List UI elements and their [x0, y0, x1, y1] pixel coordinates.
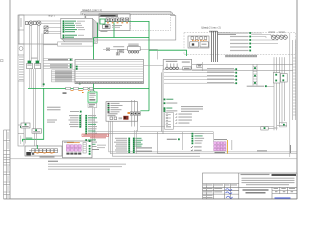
к ШУВ labels right	[181, 106, 203, 107]
wire pair left drop	[29, 69, 31, 89]
XT1 din rail hatch	[75, 81, 144, 83]
connector stack	[90, 91, 94, 95]
module A1 orange marks	[107, 22, 128, 23]
bus terminal block 2	[281, 74, 288, 83]
PSU terminal column	[83, 143, 86, 154]
PLC lower elements	[110, 117, 113, 120]
cabinet Шкаф 2 din rail	[225, 55, 257, 57]
svg-text:Жгут 1: Жгут 1	[48, 16, 56, 18]
bus end block	[280, 123, 287, 127]
PLC icon column	[108, 103, 123, 116]
frame bottom border	[4, 198, 298, 200]
IO row labels right	[136, 138, 143, 147]
alarm row highlight	[82, 134, 109, 136]
bundle feed wires	[218, 32, 237, 34]
rotated cable label	[231, 140, 233, 150]
long bottom wire	[10, 158, 297, 160]
module A2 orange marks	[192, 39, 207, 41]
left stamp column table	[4, 130, 11, 199]
label Ф-0000	[215, 152, 226, 153]
PSU orange feed wire	[67, 142, 80, 144]
AK Indycom label	[167, 139, 177, 140]
long bus wire E	[95, 133, 213, 135]
module A1 header	[99, 14, 118, 17]
green loop wire G2	[94, 23, 150, 93]
svg-text:Шкаф 2 (лист 2): Шкаф 2 (лист 2)	[201, 25, 221, 29]
controller module A1	[99, 14, 130, 31]
wire through filter cluster	[103, 48, 158, 50]
rotated doc code	[290, 145, 292, 153]
interface module A3 green frame	[88, 92, 97, 102]
label AK-0000 (лист 1)	[40, 156, 55, 157]
terminal list strip (left narrow column)	[18, 15, 24, 146]
lower junction wire	[262, 127, 274, 129]
motor feed rows	[164, 68, 237, 84]
svg-text:Шкаф 1 (лист 1): Шкаф 1 (лист 1)	[82, 8, 102, 12]
fold mark left margin	[1, 60, 3, 62]
tiny pin numbers	[63, 92, 67, 94]
device row list left	[44, 59, 78, 82]
lit cells	[274, 188, 296, 192]
filter РФ	[197, 64, 203, 67]
power supply box	[63, 141, 93, 158]
motor list rows left	[69, 115, 82, 128]
wire from device ПС1	[25, 128, 27, 144]
long bus wire C	[140, 126, 274, 128]
terminal row in AK box	[32, 149, 58, 153]
cable tag labels	[47, 120, 57, 121]
module A1 connector row	[106, 18, 129, 22]
switch S2	[44, 31, 48, 34]
riser wires to power supply	[92, 108, 94, 142]
signal rows ПТ	[164, 99, 178, 112]
wire to junction box	[144, 65, 164, 67]
right terminal strip XT5	[293, 40, 296, 120]
CK-201 pins	[167, 64, 177, 68]
side riser wire	[289, 33, 291, 157]
module A1 green port	[100, 19, 105, 24]
cabinet Шкаф 2 dashed enclosure	[184, 33, 296, 55]
XT1 terminal markers	[76, 66, 78, 68]
device ПС1	[21, 123, 30, 128]
right cable bus	[274, 57, 285, 130]
pin header box	[128, 47, 141, 51]
orange links between terminals	[71, 89, 90, 91]
pushbutton unit SB1	[28, 61, 32, 64]
strip indicator	[20, 126, 22, 128]
cable header row	[70, 111, 79, 112]
signal list sheet strip below	[58, 42, 94, 46]
wires rows to sensors	[251, 33, 278, 44]
strip rotated label	[20, 18, 22, 27]
wires to signal list	[33, 21, 62, 33]
notes paragraph	[48, 161, 58, 162]
pushbutton unit SB2	[36, 61, 40, 64]
terminal rail block XT1	[75, 60, 144, 84]
PSU relay feet	[66, 153, 81, 155]
sensor pair M1	[271, 35, 279, 39]
dark breaker	[26, 152, 31, 155]
lamp HL1	[26, 21, 34, 25]
mid terminal strip	[253, 64, 257, 86]
orange patch wire	[227, 140, 229, 154]
strip wire number list	[19, 57, 24, 80]
lamp HL2	[34, 21, 42, 25]
signal list block	[61, 18, 93, 38]
IO far left labels	[97, 144, 106, 147]
power box AK-0000	[25, 146, 62, 156]
filter cluster labels	[113, 46, 124, 47]
wire pair from HL1	[29, 26, 31, 62]
aux contact box	[116, 53, 119, 55]
bus terminal block 1	[273, 73, 280, 84]
sensor pair M2	[279, 35, 287, 39]
IO row labels left	[114, 138, 127, 153]
filter РФ2	[106, 48, 109, 51]
frame right border	[296, 0, 298, 199]
junction box CK-201	[163, 60, 192, 70]
frame left border	[9, 0, 11, 199]
device ПС2	[32, 129, 42, 133]
orange tick	[82, 91, 84, 94]
relay KD dark red	[123, 116, 128, 120]
network switch port grid	[214, 142, 226, 151]
green wire tag	[26, 138, 33, 139]
wire pair from HL2	[37, 26, 39, 62]
module A2 connector row	[191, 37, 207, 40]
rail green marker	[79, 83, 81, 85]
cable bundle riser	[209, 31, 218, 62]
long bus wire D	[92, 131, 213, 133]
long wire A	[192, 64, 293, 66]
breakout group	[165, 113, 174, 130]
signal list rows	[63, 20, 85, 38]
fuse 25mA second	[118, 50, 124, 53]
module A3 lower label box	[88, 103, 97, 107]
wire pair to lower devices	[41, 34, 43, 88]
PLC bottom wires	[109, 121, 297, 152]
title header line	[241, 174, 270, 175]
orange jumper chain	[34, 151, 55, 154]
power row	[247, 86, 265, 87]
module A1 sub block	[103, 25, 110, 29]
module A2 sub blocks	[190, 42, 199, 47]
green drop wire G5	[23, 88, 44, 141]
PSU relay columns	[66, 145, 81, 151]
arrow contacts	[191, 146, 194, 148]
wire tag д-0000	[257, 150, 267, 151]
signal column 2 lower	[85, 139, 97, 147]
signal column 2	[85, 115, 97, 134]
green terminal cluster	[130, 112, 140, 115]
bus joint	[277, 125, 287, 127]
harness box Жгут 1	[19, 15, 85, 44]
strip lamp symbol	[19, 47, 23, 51]
vertical duct	[161, 69, 163, 134]
CK-201 terminals	[166, 67, 179, 70]
left stamp rotated labels	[7, 132, 9, 198]
PSU side terminals	[89, 140, 91, 142]
fuse 25mA box	[183, 67, 191, 70]
labels above pushbuttons	[32, 58, 38, 59]
breakout labels	[175, 113, 192, 124]
signature scribbles	[226, 189, 233, 199]
module A2	[188, 36, 209, 48]
green node	[43, 83, 45, 85]
+24V labels	[136, 147, 152, 148]
к ШУВ labels left	[47, 107, 61, 108]
inline terminal boxes on green bus	[66, 87, 93, 89]
pin terminals	[128, 51, 138, 53]
cabinet box Шкаф 1 (лист 1) cascade sheets	[81, 12, 176, 40]
long wire B	[192, 70, 293, 72]
title description paragraph	[242, 178, 295, 186]
lower junction block	[261, 127, 268, 130]
network switch label	[214, 139, 227, 140]
title header row Изм Лист	[203, 184, 237, 187]
IO terminal columns	[128, 138, 134, 153]
module A1 inner dashed bay	[131, 15, 171, 31]
signal list block cascade sheets	[62, 20, 97, 44]
title project name	[243, 189, 269, 190]
title block	[203, 173, 298, 199]
title row labels	[203, 188, 222, 198]
title doc code	[272, 174, 297, 176]
cable tail icon	[87, 148, 91, 151]
green bus wire G3	[28, 87, 149, 89]
module A1 label	[100, 31, 107, 32]
IO bay terminals	[192, 133, 194, 135]
Шкаф 2 signal rows	[230, 32, 251, 51]
wire pair to power box	[34, 133, 36, 146]
alarm row 2	[90, 137, 106, 138]
PLC block A4	[106, 102, 138, 122]
green network wire G1	[105, 21, 149, 110]
orange link	[128, 112, 131, 114]
PLC risers	[131, 100, 133, 127]
company cell blue text	[275, 197, 291, 198]
IO bay edge	[158, 132, 201, 154]
switch S1	[44, 26, 48, 29]
riser pair to bottom bus	[134, 130, 136, 152]
wire pair middle drop	[33, 69, 35, 130]
green branch to cabinet 2	[149, 50, 187, 56]
